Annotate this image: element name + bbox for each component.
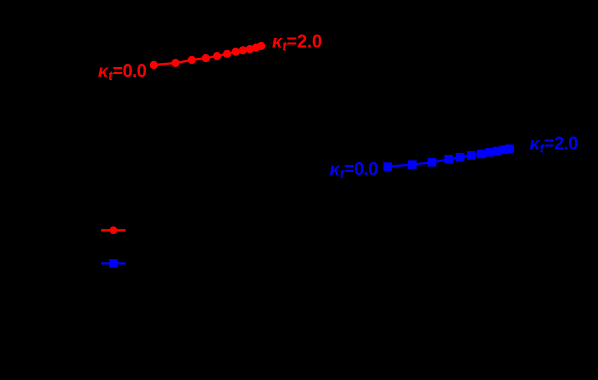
svg-text:κt=2.0: κt=2.0	[530, 134, 579, 156]
svg-text:κt=0.0: κt=0.0	[98, 61, 147, 83]
red series circle markers	[150, 42, 266, 69]
svg-text:κt=0.0: κt=0.0	[330, 159, 379, 181]
blue series square markers	[383, 145, 514, 171]
blue series line	[388, 149, 510, 167]
legend blue sample: line with square	[101, 259, 126, 268]
svg-text:κt=2.0: κt=2.0	[272, 32, 322, 54]
legend red sample: line with circle	[101, 226, 126, 234]
red series line	[154, 46, 261, 65]
